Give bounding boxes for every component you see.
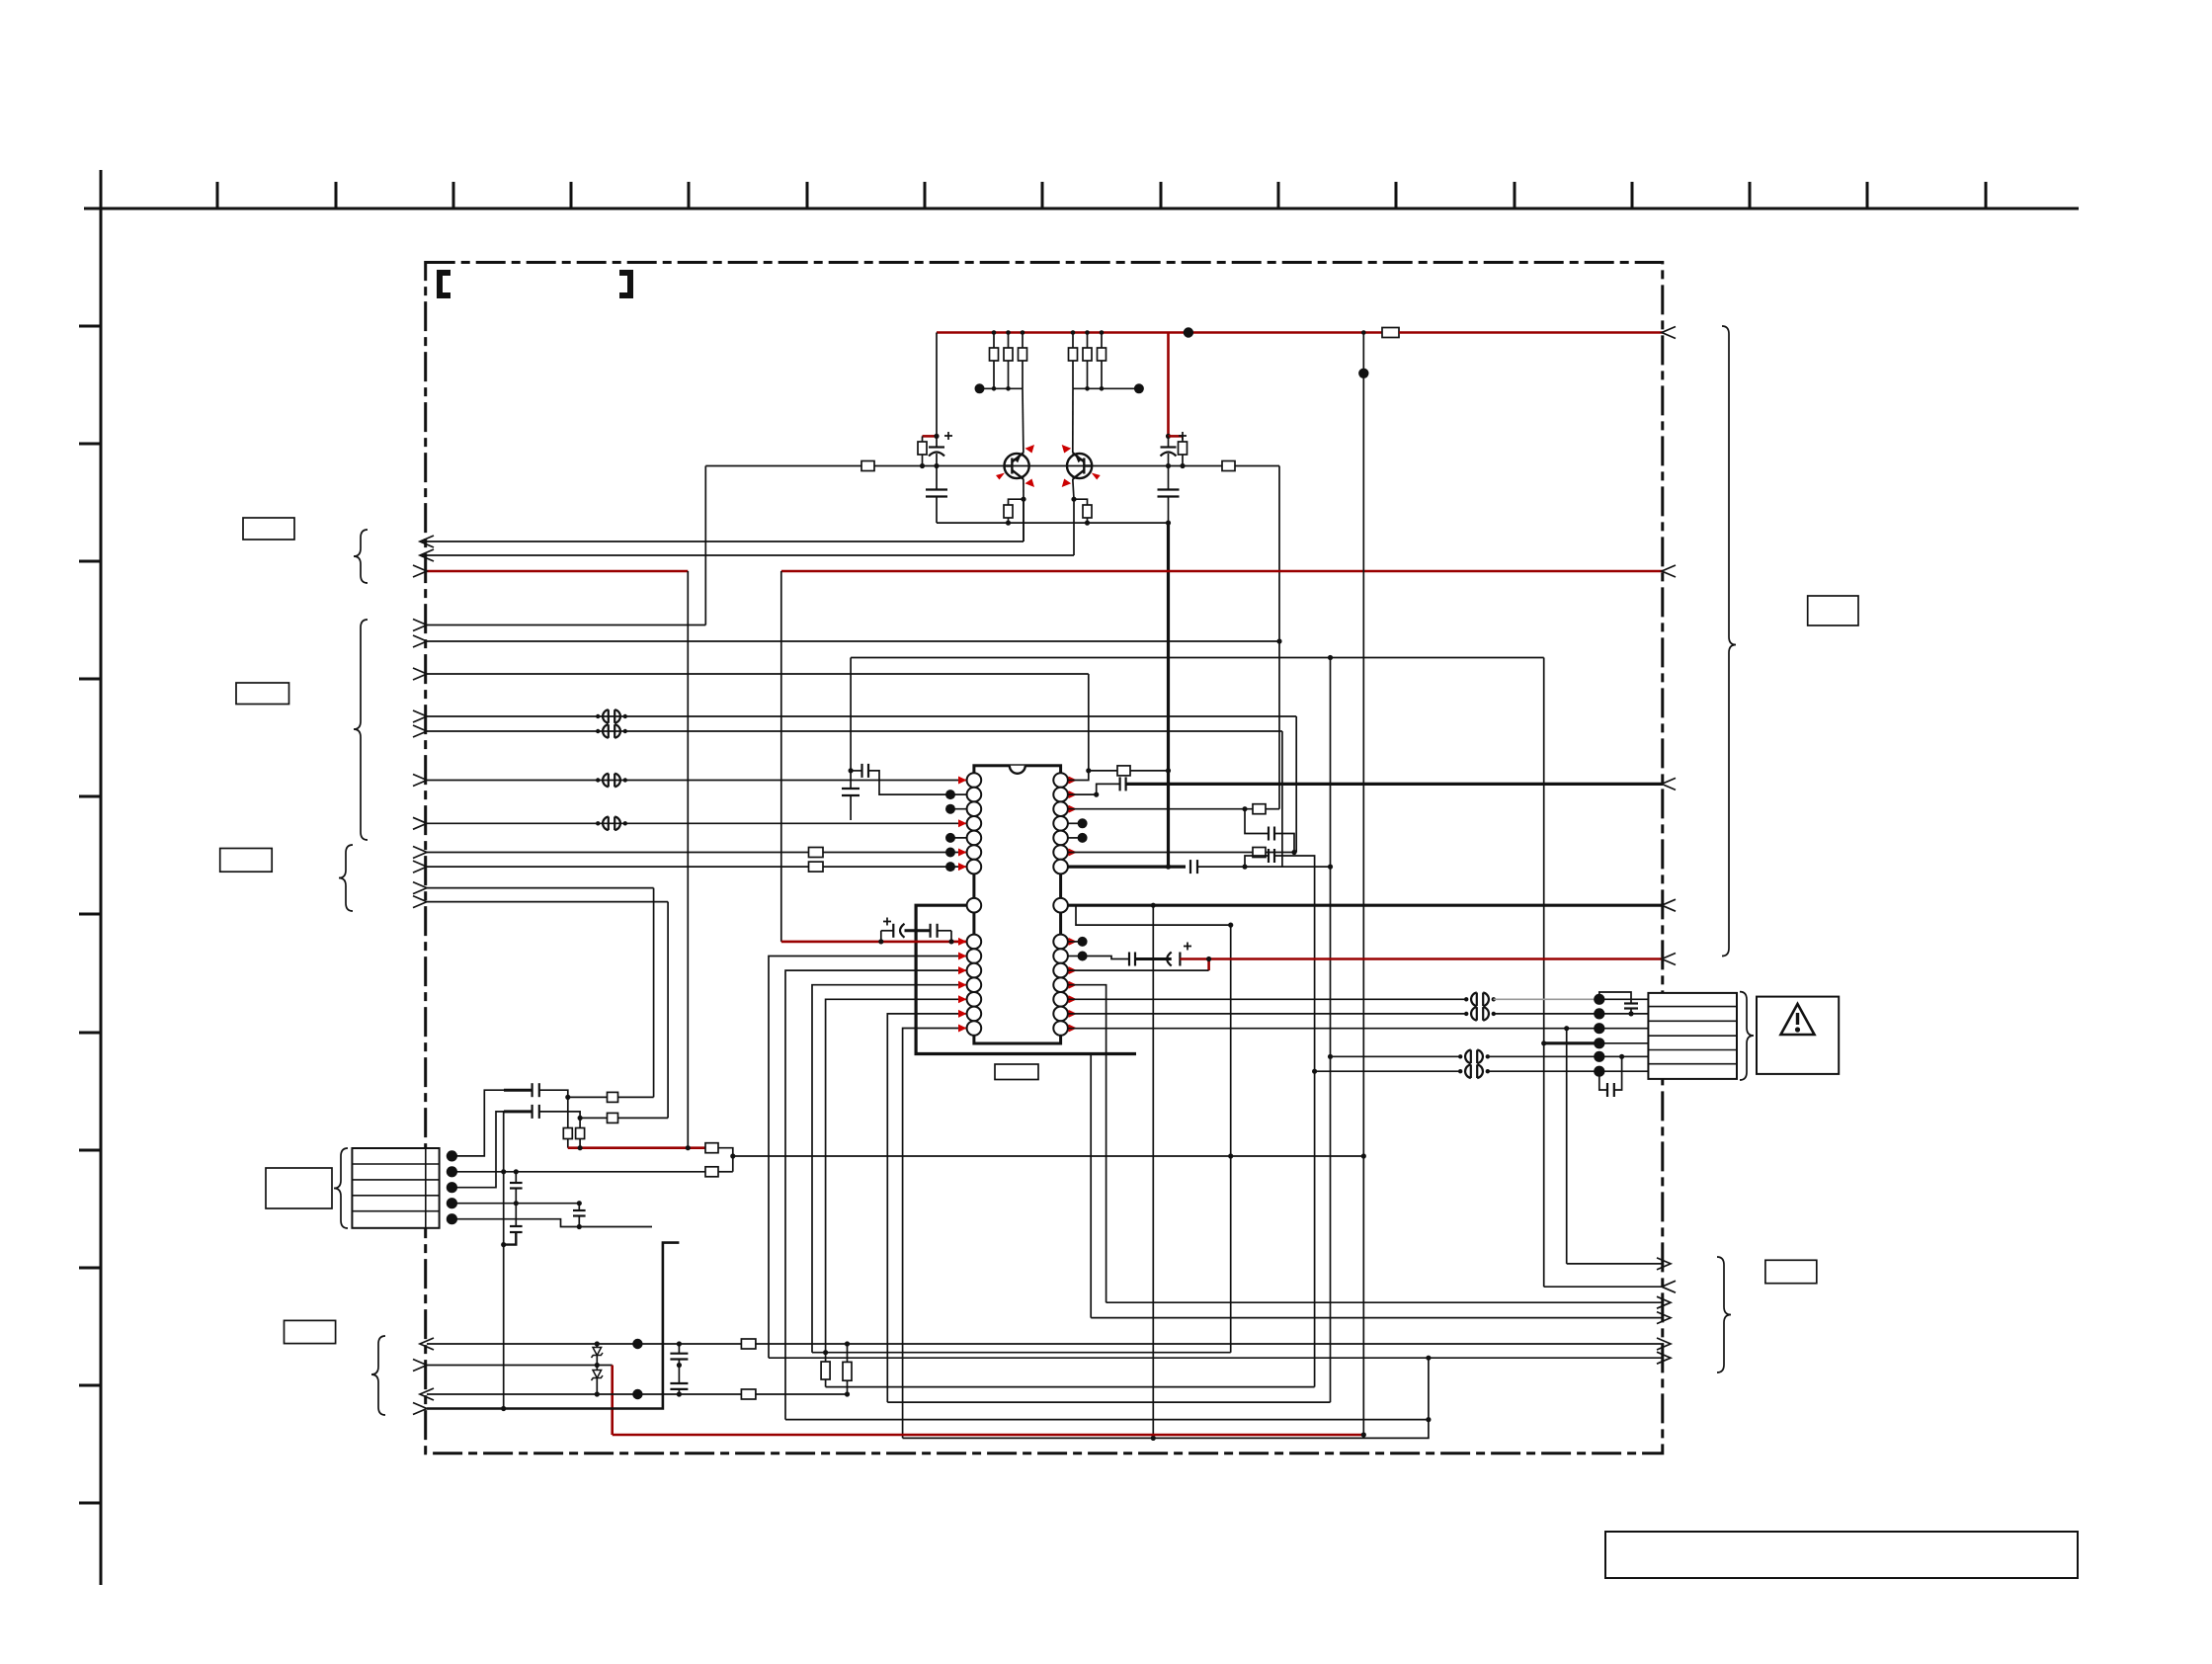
wire bead4 line right (1488, 1070, 1599, 1072)
wire 1104 vertical (1090, 1054, 1092, 1318)
wire input line 13 (427, 887, 654, 889)
node zener dots (595, 1341, 600, 1396)
capacitor C-pin2L lead left (851, 770, 861, 772)
zener diode D1 lead top (596, 1344, 598, 1348)
node row3 corner dot (1564, 1026, 1569, 1031)
wire p2 connector ground line (451, 1171, 705, 1173)
wire input line 12 to pin7L (427, 866, 809, 868)
resistor R3 lead bottom (1022, 361, 1024, 388)
wire bottom h line 1419 (887, 1401, 1330, 1403)
wire bead6 to connector (1494, 1013, 1599, 1015)
wire exit line 1333 (1091, 1317, 1664, 1319)
wire bottom line2 (427, 1365, 613, 1367)
node Rbias base dot (920, 463, 925, 468)
node C-A bottom dot (1291, 850, 1296, 855)
capacitor C-A plates (1268, 827, 1270, 841)
wire pin7R thick row (1068, 865, 1186, 868)
wire bottom h line 1368 (812, 1352, 1231, 1354)
node rail big dot (1184, 327, 1193, 337)
probe arrows red left pins (958, 777, 967, 1033)
wire Q1 output vertical (1023, 499, 1024, 541)
wire output line 2 (420, 554, 1074, 556)
resistor RB1 body on base line (861, 461, 874, 471)
wire RE2 to emitter rail (1087, 518, 1089, 523)
wire series caps stub right (950, 931, 952, 942)
IC pins right column (1053, 773, 1068, 1036)
node cap dots (677, 1341, 682, 1396)
wire line 13 drop (653, 888, 655, 1098)
wire filter line 2 (580, 1117, 607, 1119)
node C-A bottom dot (514, 1201, 519, 1206)
resistor R-red body (705, 1143, 718, 1153)
connector CN2 dividers (1648, 1007, 1737, 1064)
node rail small dots (992, 330, 1366, 390)
node pin1R dot (1086, 768, 1091, 773)
wire red step stub (1207, 959, 1210, 971)
capacitor C-el out curved plate (1167, 953, 1172, 966)
wire vertical right base branch (1278, 466, 1280, 809)
capacitor C-B plates (573, 1209, 586, 1211)
arrowhead red input (413, 565, 427, 577)
wire pin14R row to bead (1068, 1013, 1467, 1015)
wire pin10L (769, 957, 967, 1359)
capacitor C-A leads (1245, 809, 1268, 834)
resistor Rv2 lead top (579, 1118, 581, 1127)
node bus on pin7R (1166, 865, 1171, 870)
ferrite bead FB7 (1458, 1050, 1490, 1064)
wire 1585 vertical down (1566, 1029, 1568, 1264)
wire 1119 down branch (1106, 1156, 1107, 1302)
capacitor C-B right lead (1274, 856, 1315, 1387)
node 1245 dot (1228, 923, 1233, 928)
wire Q1 emitter to resistor (1009, 499, 1024, 505)
arrowhead thick B right edge (1662, 899, 1676, 911)
wire after R-red (718, 1148, 733, 1172)
brace group2 left (354, 620, 368, 840)
node base branch dot (1276, 638, 1281, 643)
wire output line 1 (420, 541, 1024, 542)
capacitor C-row lead bottom (1630, 1009, 1632, 1014)
wire right cluster vertical mid (1168, 436, 1170, 447)
wire red drop line2 (611, 1366, 614, 1436)
arrowhead line2 (413, 1360, 427, 1372)
wire Q2 collector from junction (1072, 388, 1074, 453)
wire RE1 to emitter rail (1008, 518, 1010, 523)
node 1330 bead4 dot (1312, 1069, 1317, 1074)
wire Rbias lead top (922, 436, 924, 442)
wire filter line 2 right (618, 1117, 669, 1119)
capacitor C-row6 plates (1606, 1083, 1608, 1097)
arrowhead input line 11 (413, 847, 427, 859)
wire Q2 emitter to resistor (1074, 499, 1088, 505)
IC U1 body (974, 766, 1061, 1043)
wire row4 thick stub (1544, 1041, 1599, 1044)
page ruler vertical border line (100, 170, 103, 1585)
node C-B bottom dot (577, 1224, 582, 1229)
ruler top ticks (217, 182, 1986, 208)
resistor Rf2 body (608, 1113, 618, 1123)
zener diode D2 lead bottom (596, 1378, 598, 1395)
resistor R6 body (1098, 348, 1106, 361)
wire pin10R to output cap (1083, 957, 1129, 959)
capacitor C1 thick lead (504, 1089, 533, 1092)
node Rlink dots (845, 1341, 850, 1396)
capacitor C-out plates (1128, 953, 1130, 966)
wire pin11L (785, 970, 967, 1420)
wire input line 11 to pin6L (427, 852, 809, 854)
ruler left ticks (79, 326, 101, 1503)
wire bottom h line 1455 (903, 1358, 1429, 1438)
resistor R5 lead bottom (1087, 361, 1089, 388)
node 1445 dots (1426, 1356, 1431, 1423)
wire line 11 right part (823, 852, 967, 854)
wire input line 7 (427, 715, 1296, 717)
bracket glyph right (619, 273, 630, 295)
label box lower left (220, 849, 273, 873)
wire pin13L lower lead (825, 1379, 827, 1387)
zener diode D2 (593, 1371, 602, 1378)
IC U1 notch (1010, 766, 1025, 774)
wire base line mid (874, 465, 1222, 467)
probe arrow red Q1 bottom (1025, 479, 1035, 488)
node emitter rail end dot (1166, 521, 1171, 526)
wire Rbias lead bottom (922, 455, 924, 466)
wire pin11R row to red stub (1068, 969, 1209, 971)
wire pin13R row to bead (1068, 998, 1467, 1000)
resistor R-line11 body (809, 848, 824, 858)
brace group1 left (354, 530, 368, 583)
arrowhead input line 6 (413, 668, 427, 680)
capacitor C-A right lead (1274, 834, 1294, 853)
arrowhead thick A right edge (1662, 778, 1676, 790)
capacitor C4 lead bottom (678, 1360, 680, 1366)
wire filter line 1 (568, 1096, 608, 1098)
node right cluster top dot (1166, 434, 1171, 439)
pin stub dots left pins 2 3 5 (950, 793, 967, 795)
connector CN1 pin dots (447, 1150, 457, 1224)
brace group4 bottom left (371, 1336, 385, 1415)
wire thick bus down from right cluster (1167, 523, 1170, 867)
node 1346 bead3 dot (1328, 1054, 1333, 1059)
connector CN1 body (352, 1148, 439, 1228)
wire pin15L (903, 1029, 967, 1439)
brace left connector (334, 1148, 348, 1228)
brace bottom right (1717, 1257, 1731, 1373)
wire long vertical 1346 (1330, 658, 1332, 1403)
node loop dot (849, 768, 854, 773)
connector CN2 wire stubs (1599, 999, 1649, 1071)
resistor R-gnd body (705, 1167, 718, 1177)
wire bottom h line 1403 (826, 1386, 1315, 1388)
node 509 on line4 (501, 1406, 506, 1411)
wire pin7R row right (1197, 866, 1331, 868)
plus sign left electrolytic (944, 432, 952, 440)
ferrite bead FB4 (596, 817, 627, 831)
arrowhead bottom through right (1657, 1338, 1671, 1350)
connector CN2 body (1648, 993, 1737, 1079)
wire red pin9L (781, 941, 967, 944)
plus sign series electrolytic (883, 918, 891, 926)
capacitor C-series2 plates (929, 924, 931, 938)
wire loop right drop (1543, 658, 1545, 1288)
capacitor C-B leads (1245, 856, 1268, 867)
resistor Rv1 body (563, 1128, 572, 1139)
wire C-pin2L to pin2 stub (868, 771, 950, 794)
resistor RB2 body on base line (1222, 461, 1235, 471)
capacitor C1 plates (531, 1083, 533, 1097)
resistor R4 lead bottom (1072, 361, 1074, 388)
resistor R2 body (1004, 348, 1013, 361)
transistor Q2 (1067, 453, 1092, 479)
node C-row dot (1628, 1011, 1633, 1016)
wire resistor to bus (1130, 770, 1169, 772)
wire Q2 emitter leg (1073, 479, 1074, 499)
wire emitter ground rail (937, 522, 1169, 524)
resistor R3 lead top (1022, 333, 1024, 349)
wire bottom line3 (427, 1393, 848, 1395)
wire cap out mid thick (1135, 957, 1172, 960)
wire p2 line right part (718, 1171, 733, 1173)
wire series right lead (938, 930, 951, 932)
wire right cluster vertical below cap (1168, 454, 1170, 490)
wire exit line 1374 (769, 1357, 1664, 1359)
node pin9L red dot right (948, 939, 953, 944)
wire left cluster vertical below cap (936, 454, 938, 490)
bracket glyph left (440, 273, 451, 295)
resistor R2 lead bottom (1008, 361, 1010, 388)
arrowhead input line 5 (413, 635, 427, 647)
wire bottom line4 thick (427, 1243, 679, 1409)
wire exit line 1278 (1567, 1263, 1664, 1265)
title block rectangle (1605, 1532, 2078, 1578)
wire input line 4 (427, 624, 705, 626)
wire red output line (1180, 957, 1663, 960)
warning triangle (1781, 1004, 1815, 1035)
wire loop left drop (850, 658, 852, 790)
wire pin6R row (1068, 852, 1253, 854)
wire long vertical 1380 from rail (1362, 333, 1364, 1436)
capacitor C-loop plates (842, 788, 860, 790)
capacitor C-pin2R plates (1118, 777, 1120, 790)
wire input line 9 to pin1L (427, 780, 967, 782)
label box upper left (243, 518, 294, 540)
probe arrow red Q2 right (1092, 473, 1101, 480)
wire exit line 1318 (1106, 1301, 1664, 1303)
wire right cluster red vertical (1167, 333, 1170, 437)
resistor R-pin3R body (1253, 804, 1266, 814)
wire vertical 509 drop (503, 1112, 505, 1409)
wire pin12L (812, 985, 967, 1353)
resistor Rf1 body (608, 1092, 618, 1102)
wire line 12 right part (823, 866, 967, 868)
capacitor C-C plates (510, 1225, 523, 1227)
resistor Rlink lead top (847, 1344, 849, 1362)
power rail red wire (937, 331, 1382, 334)
arrowhead out line 2 (420, 549, 434, 561)
wire pin2R stub (1068, 784, 1120, 794)
capacitor C-el left plates (929, 446, 944, 448)
node p2 dot 509 (501, 1169, 506, 1174)
resistor R5 body (1083, 348, 1092, 361)
wire p4 connector (451, 1203, 579, 1205)
wire pin13L (826, 999, 967, 1362)
ferrite bead FB5 (1464, 993, 1496, 1007)
node left cluster top dot (934, 434, 939, 439)
node big dot line3 (632, 1389, 642, 1399)
capacitor C-el series lead (881, 930, 894, 932)
node big dot left group (975, 383, 985, 393)
wire input line 10 to pin4L (427, 822, 967, 824)
wire Q2 output drop (1073, 499, 1075, 555)
arrowhead line4 (413, 1403, 427, 1415)
resistor R-835 body (821, 1362, 830, 1379)
wire pin6R row right (1266, 852, 1296, 854)
node C-row6 dot (1619, 1054, 1624, 1059)
label box bottom left (285, 1320, 336, 1343)
arrowhead input line 14 (413, 896, 427, 908)
capacitor C5 lead bottom (678, 1389, 680, 1394)
resistor R4 body (1069, 348, 1078, 361)
wire red stub right cluster (1169, 435, 1184, 438)
capacitor C-B lead bottom (578, 1216, 580, 1227)
label box mid left (236, 683, 289, 705)
resistor R-rail inline on power rail (1382, 328, 1399, 338)
IC pins left column (967, 773, 982, 1036)
wire pin1R to resistor (1089, 770, 1117, 772)
wire input line 5 (427, 640, 1279, 642)
resistor R1 body (990, 348, 999, 361)
wire p3 connector (451, 1112, 504, 1188)
wire bead4 line (1315, 1070, 1461, 1072)
wire bead3 line right (1488, 1055, 1599, 1057)
node dot line 12 (945, 862, 955, 872)
node 1346 top dot (1328, 655, 1333, 660)
capacitor C4 plates (670, 1353, 688, 1355)
wire series mid thick (905, 929, 931, 932)
probe arrow red Q2 bottom (1062, 479, 1072, 488)
wire base junction line 2 (1073, 387, 1139, 389)
capacitor C4 lead top (678, 1344, 680, 1354)
resistor R2 lead top (1008, 333, 1010, 349)
connector CN2 pin dots (1594, 994, 1604, 1077)
capacitor C-A plates (510, 1182, 523, 1184)
node bus dot (1166, 768, 1171, 773)
capacitor C-pin7R plates (1189, 860, 1191, 874)
arrowhead red output right edge (1662, 954, 1676, 965)
warning exclamation dot (1795, 1027, 1800, 1032)
wire p5 connector stepped (451, 1219, 652, 1227)
node red dot 696 (686, 1145, 691, 1150)
resistor R4 lead top (1072, 333, 1074, 349)
wire mid vertical 1167 (1152, 905, 1154, 1438)
node red step dot (1206, 957, 1211, 961)
arrowhead input line 9 (413, 775, 427, 787)
node filter2 dot (578, 1116, 583, 1121)
resistor Rbias left body (918, 442, 927, 455)
node red dot 587 (578, 1145, 583, 1150)
pin4R stub dot (1068, 822, 1083, 824)
capacitor C-el out straight plate (1179, 953, 1181, 966)
page ruler horizontal border line (84, 208, 2079, 210)
resistor R-line12 body (809, 862, 824, 872)
pin10R stub dot (1068, 956, 1083, 957)
node pin8R mid dot (1151, 903, 1156, 908)
capacitor C5 lead top (678, 1366, 680, 1384)
node p2 dot 522 (514, 1169, 519, 1174)
wire pin3R right (1266, 808, 1279, 810)
probe arrow red Q1 left (996, 473, 1005, 480)
wire pin2 long net (733, 1155, 1364, 1157)
arrowhead out line 1 (420, 536, 434, 547)
transistor Q1 (1005, 453, 1029, 479)
node filter1 dot (565, 1095, 570, 1100)
arrowhead input line 7 (413, 710, 427, 722)
node Q1 emitter junction (1021, 497, 1025, 502)
wire series caps stub left (880, 931, 882, 942)
brace group3 left (339, 845, 353, 911)
wire cap jog row1 (1599, 992, 1631, 1004)
wire left drop of rail (936, 333, 938, 437)
power rail red wire right segment (1399, 331, 1663, 334)
wire below C-loop (850, 795, 852, 820)
probe arrow red Q1 top (1025, 445, 1035, 454)
resistor Rlink lead bottom (847, 1380, 849, 1394)
wire Q1 output drop (1023, 499, 1024, 541)
wire row6 cap drop (1599, 1071, 1607, 1090)
wire C-row6 right lead (1614, 1056, 1622, 1090)
node RE1 rail dot (1006, 521, 1011, 526)
node row4 joint dot (1541, 1040, 1546, 1045)
node pin9L red dot left (878, 939, 883, 944)
resistor Rv2 lead bottom (579, 1139, 581, 1148)
node C-A top dot (1242, 806, 1247, 811)
arrowhead exit 1318 (1657, 1296, 1671, 1308)
resistor R-pin1R body (1117, 766, 1130, 776)
arrowhead exit 1278 (1657, 1258, 1671, 1270)
arrowhead bottom through left (420, 1338, 434, 1350)
capacitor C-C lead bottom (504, 1232, 517, 1245)
resistor Rlink body (843, 1362, 852, 1380)
node C-B dot (1242, 865, 1247, 870)
node C-C joint dot (501, 1242, 506, 1247)
wire red input line B+ (427, 570, 688, 573)
wire Rbias right lead bottom (1182, 455, 1184, 466)
wire line 7 drop (1295, 716, 1297, 853)
node base extension dot right (1166, 463, 1171, 468)
node RE2 rail dot (1085, 521, 1090, 526)
wire filter line 1 right (618, 1096, 654, 1098)
wire Q1 collector from junction (1022, 388, 1024, 453)
capacitor C2 plates (531, 1105, 533, 1119)
resistor Rb1 body on line1 (741, 1339, 756, 1349)
dash-dot board boundary box (426, 263, 1663, 1454)
node Q2 emitter junction (1071, 497, 1076, 502)
capacitor C-A lead top (515, 1172, 517, 1183)
capacitor C-B lead top (578, 1204, 580, 1210)
wire line 14 drop (667, 902, 669, 1119)
wire p1 connector (451, 1090, 504, 1156)
arrowhead input line 8 (413, 725, 427, 737)
arrowhead input line 10 (413, 817, 427, 829)
capacitor C-pin2L plates (860, 764, 862, 778)
brace big right (1722, 326, 1736, 957)
resistor R3 body (1019, 348, 1027, 361)
arrowhead input line 13 (413, 882, 427, 894)
wire Rbias right lead top (1182, 436, 1184, 442)
capacitor C-A lead bottom (515, 1189, 517, 1204)
wire pin8L thick lead (916, 905, 1136, 1053)
wire bottom through line (427, 1343, 1664, 1345)
